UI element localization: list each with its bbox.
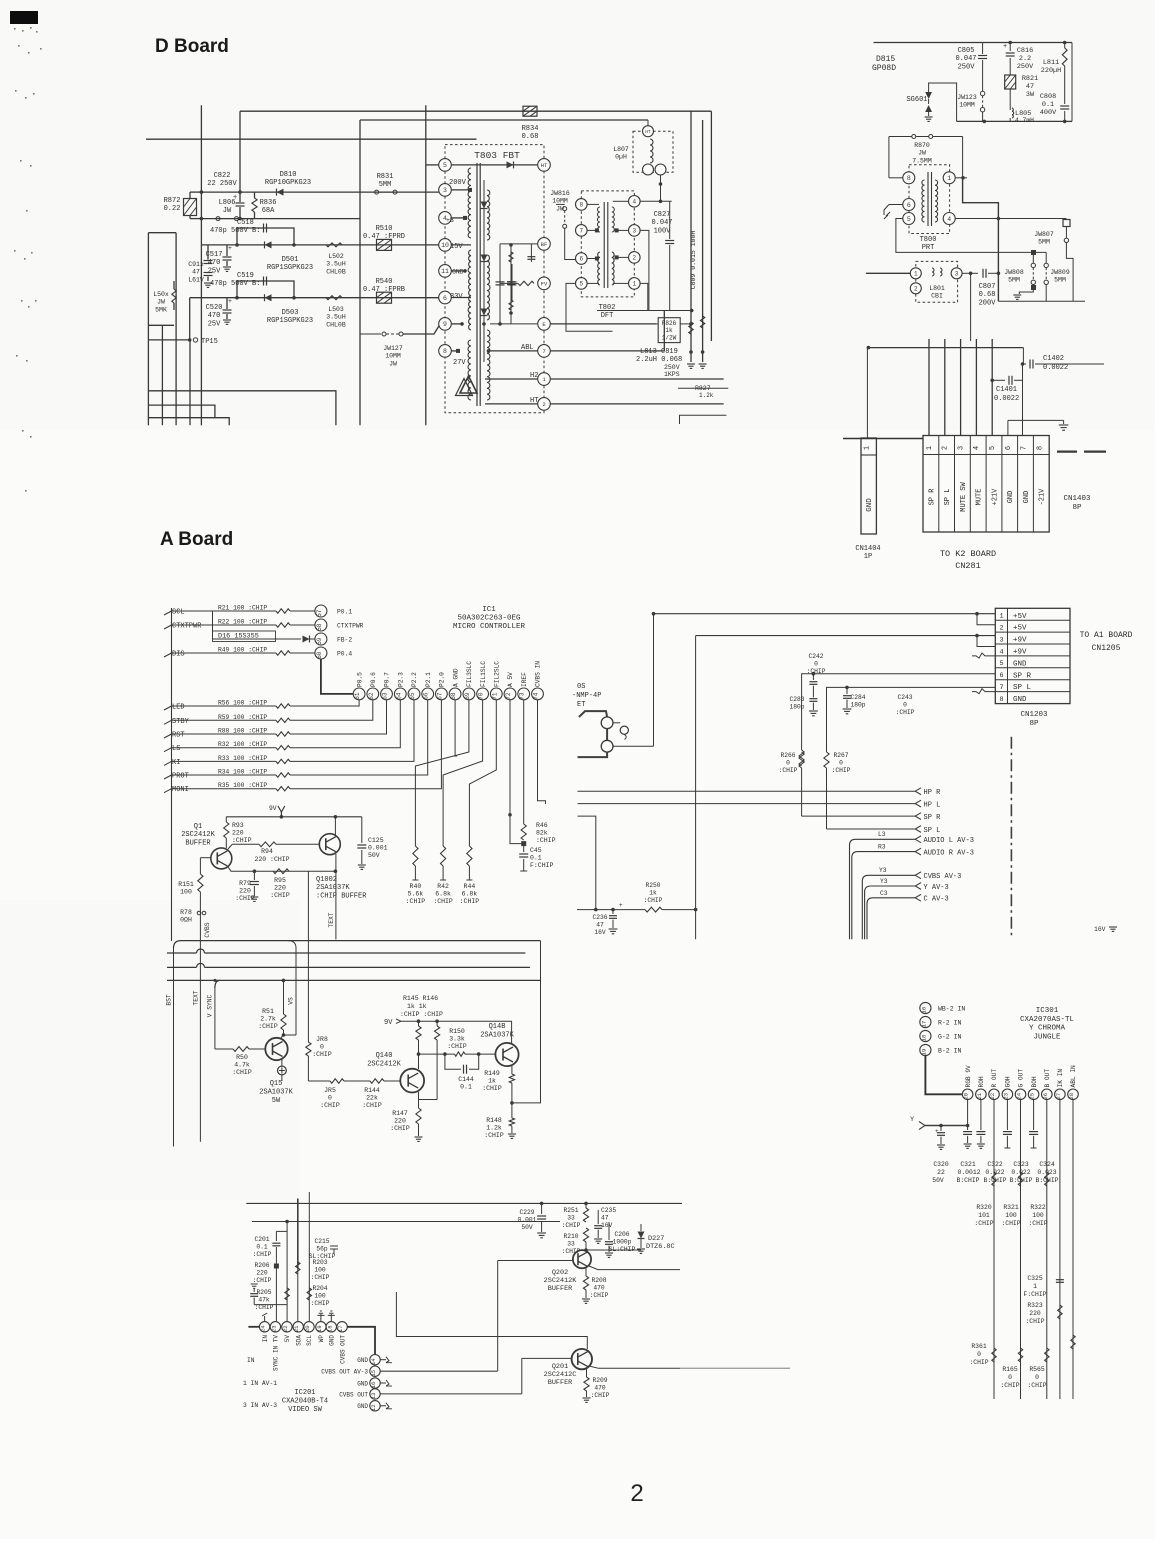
svg-text:22k: 22k [366,1095,378,1102]
svg-text:4: 4 [632,199,636,206]
svg-text:4.7mH: 4.7mH [1015,117,1034,124]
long line pin26 B OUT [1046,1100,1048,1399]
svg-text:50V: 50V [932,1177,944,1184]
svg-text:6: 6 [443,295,447,302]
Q1 emitter row [228,867,335,871]
svg-text:A GND: A GND [452,668,459,687]
svg-text:R826: R826 [662,320,677,327]
svg-text:2SC2412C: 2SC2412C [544,1371,577,1379]
row to Q140 base [308,1080,330,1082]
svg-text:P0.7: P0.7 [384,672,391,687]
IC201 pin 12 [370,1401,380,1411]
svg-text:17: 17 [337,1325,344,1332]
IC1 pin 58 [315,619,327,631]
svg-text:470: 470 [593,1284,605,1291]
CN1403 pin 4 [969,436,971,533]
svg-text:D810: D810 [280,171,297,179]
resistor R251 33 CHIP [585,1203,587,1208]
wire y301 [998,300,1085,302]
svg-text:R540: R540 [376,278,393,286]
svg-text:0.1: 0.1 [1042,101,1054,109]
svg-text:CVBS: CVBS [204,922,211,937]
T802 pin5 wire [566,283,613,331]
IC201 pin 15 [370,1366,380,1376]
svg-text:GND: GND [1007,491,1015,504]
svg-text:Q201: Q201 [552,1363,568,1371]
svg-text:P0.5: P0.5 [356,672,363,687]
svg-text:71: 71 [491,692,498,700]
Q1002 emitter wire [335,854,337,871]
svg-text:0.023: 0.023 [1037,1169,1056,1176]
svg-text:R51: R51 [262,1008,274,1015]
svg-text:0: 0 [786,759,790,766]
capacitor C201 [276,1230,287,1232]
svg-text:16V: 16V [1094,926,1106,933]
svg-text::CHIP: :CHIP [974,1220,993,1227]
svg-text:28: 28 [1068,1093,1075,1100]
scan corner mark [10,11,38,24]
svg-text:FIL3SLC: FIL3SLC [466,661,473,687]
svg-text:5: 5 [989,446,997,450]
svg-text:2SA1037K: 2SA1037K [480,1031,514,1039]
svg-text::CHIP: :CHIP [590,1292,609,1299]
svg-text:VIDEO SW: VIDEO SW [288,1406,322,1414]
svg-text::CHIP: :CHIP [253,1251,272,1258]
svg-text:2.2: 2.2 [1019,55,1031,63]
svg-text::CHIP: :CHIP [779,767,798,774]
svg-text:5: 5 [907,216,911,223]
capacitor on Y line [940,1126,942,1132]
T800 wires [888,137,890,178]
wire main horizontal bus y139 [146,138,477,140]
JR8 vertical [307,871,309,1042]
svg-text:R94: R94 [261,848,273,855]
IC201 pin 21 [293,1322,303,1332]
svg-text:5: 5 [999,660,1003,668]
inductor L801 dashed box [916,261,958,302]
zener D227 DTZ6.8C [640,1224,642,1231]
CN1203 pin 3 [995,631,1070,633]
svg-text:MUTE: MUTE [976,489,984,506]
svg-text:6: 6 [1005,446,1013,450]
svg-text:TO K2 BOARD: TO K2 BOARD [940,549,996,559]
svg-text:70: 70 [478,692,485,700]
C AV-3 wire [867,898,916,939]
svg-text:C807: C807 [979,283,996,291]
svg-text:1k: 1k [665,327,673,334]
capacitor C235 47 16V [597,1210,599,1224]
svg-text::CHIP: :CHIP [390,1125,410,1132]
svg-text:R205: R205 [256,1289,271,1296]
svg-text:5MM: 5MM [1038,239,1050,246]
svg-text:10: 10 [441,242,449,249]
svg-text:8: 8 [907,175,911,182]
svg-text:AUDIO R AV-3: AUDIO R AV-3 [924,849,974,857]
jack pin circles [601,717,613,729]
wire y418 [149,418,229,426]
svg-text:220 :CHIP: 220 :CHIP [254,856,289,863]
svg-text:SCL: SCL [172,609,185,617]
capacitor C519 470p 500V B [237,281,294,298]
resistor R206 220 CHIP [274,1264,279,1269]
svg-text:5MM: 5MM [1008,277,1020,284]
svg-text:GND: GND [357,1380,368,1387]
svg-text:CVBS IN: CVBS IN [535,661,542,687]
svg-text:P2.2: P2.2 [411,672,418,687]
CN1203 pin 7 [995,679,1070,681]
svg-text:8P: 8P [1072,504,1082,512]
Q202 collector wire [589,1266,598,1270]
CN1203 pin 2 [995,619,1070,621]
CVBS AV-3 wire [862,875,916,939]
svg-text:0.47 :FPRB: 0.47 :FPRB [363,286,405,294]
svg-text:0: 0 [977,1351,981,1358]
svg-text:CVBS AV-3: CVBS AV-3 [924,873,962,881]
IC301 pin 28 [1068,1089,1079,1100]
inductor L807 dashed box [633,131,673,172]
svg-text:B:CHIP: B:CHIP [1035,1177,1058,1184]
svg-text:8: 8 [1036,446,1044,450]
svg-text:3: 3 [999,636,1003,644]
svg-text:B:CHIP: B:CHIP [1009,1177,1032,1184]
svg-text:4: 4 [999,648,1003,656]
VS vertical [288,941,296,1035]
IC301 pin 16 [920,1002,931,1013]
svg-text:R208: R208 [591,1277,606,1284]
svg-text:6: 6 [579,256,583,263]
resistor R821 47 3W [1005,75,1016,89]
svg-text:B:CHIP: B:CHIP [956,1177,979,1184]
svg-text:R34 100 :CHIP: R34 100 :CHIP [218,769,267,776]
svg-text:Y CHROMA: Y CHROMA [1029,1025,1066,1033]
svg-text:2: 2 [942,446,950,450]
svg-text:+: + [1003,43,1007,51]
T802 pin 6 [576,253,588,265]
svg-text:C215: C215 [314,1238,329,1245]
svg-text:C323: C323 [1013,1161,1029,1168]
svg-text:C125: C125 [368,837,384,844]
svg-text:R510: R510 [376,225,393,233]
IC1 pin 62 [367,688,379,700]
long line pin28 ABL IN [1072,1100,1074,1399]
svg-text:2SC2412K: 2SC2412K [544,1277,578,1285]
svg-text:4: 4 [973,446,981,450]
svg-text:R22 100 :CHIP: R22 100 :CHIP [218,619,267,626]
T802 pin 3 [629,225,641,237]
jumper JW807 5MM [1063,220,1070,227]
Q148 collector from 9V rail [511,1021,513,1043]
svg-text:220µH: 220µH [1041,67,1061,75]
svg-text:1k: 1k [649,889,657,896]
Q1 base wire [200,857,210,859]
transistor Q148 2SA1037K [495,1043,518,1066]
svg-text:R46: R46 [536,822,548,829]
CN1203 pin 6 [995,667,1070,669]
svg-text:1 IN AV-1: 1 IN AV-1 [243,1380,277,1387]
svg-text:1: 1 [914,271,918,278]
connector CN1203 8P [995,608,1070,703]
svg-text:+9V: +9V [1013,637,1027,645]
svg-text:WB-2 IN: WB-2 IN [938,1006,965,1013]
svg-text:+5V: +5V [1013,613,1027,621]
bus y1221 [252,1221,560,1223]
resistor R151 100 [199,858,201,874]
SP R resistor R266 [799,752,804,768]
svg-text:C518: C518 [237,219,254,227]
T803 pin E [538,318,551,331]
vertical x309 [308,1192,310,1321]
svg-text:C822: C822 [214,172,231,180]
L801 input wire [866,272,910,274]
wire y390 with corner [149,391,336,425]
svg-text:10MM: 10MM [552,198,568,205]
capacitor C518 470p 500V B [237,228,294,245]
svg-text:CHL0B: CHL0B [326,268,346,275]
svg-text:7.5MM: 7.5MM [912,157,932,164]
jumper L806 JW [216,217,220,221]
svg-text:R147: R147 [392,1110,408,1117]
svg-text:G-2 IN: G-2 IN [938,1034,962,1041]
svg-text:0.047: 0.047 [955,55,976,63]
svg-text::CHIP: :CHIP [896,709,915,716]
svg-text:CHL0B: CHL0B [326,321,346,328]
svg-text:R21 100 :CHIP: R21 100 :CHIP [218,605,267,612]
svg-text:1k: 1k [488,1078,496,1085]
svg-text:8: 8 [443,348,447,355]
Q148 base row / capacitor C144 [419,1053,455,1055]
svg-text:R59 100 :CHIP: R59 100 :CHIP [218,714,267,721]
T802 pin 4 [629,196,641,208]
svg-text:R44: R44 [464,883,476,890]
svg-text:C AV-3: C AV-3 [924,896,949,904]
svg-text:BOH: BOH [1031,1076,1038,1087]
connector CN1404 1P [861,438,876,534]
svg-text:SP R: SP R [1013,672,1032,680]
svg-text:Q140: Q140 [376,1052,393,1060]
svg-text:74: 74 [533,692,540,700]
wire top y42 [874,42,1073,44]
lead line y438 [843,438,923,440]
svg-text:GP08D: GP08D [872,64,896,73]
svg-text:27: 27 [1055,1093,1062,1100]
svg-text:C235: C235 [601,1207,616,1214]
svg-text:R321: R321 [1003,1204,1019,1211]
vertical x287 [286,1222,288,1322]
svg-text:P0.6: P0.6 [370,672,377,687]
svg-text:9V: 9V [269,805,277,812]
svg-text:CN1205: CN1205 [1092,644,1121,653]
svg-text:MUTE SW: MUTE SW [960,481,968,511]
svg-text:0.68: 0.68 [979,291,996,299]
svg-text::CHIP: :CHIP [1001,1220,1020,1227]
svg-text:5MM: 5MM [1054,277,1066,284]
svg-text:57: 57 [316,609,323,617]
svg-text:LS: LS [172,745,180,753]
Q1002 collector wire [334,817,336,835]
svg-text:FIL2SLC: FIL2SLC [494,661,501,687]
svg-text:1: 1 [999,613,1003,621]
svg-text:DTZ6.8C: DTZ6.8C [646,1243,675,1251]
svg-text:C320: C320 [933,1161,949,1168]
svg-text:C144: C144 [458,1076,474,1083]
svg-text::CHIP: :CHIP [232,837,252,844]
svg-text:Q14B: Q14B [489,1023,506,1031]
arrow HP L [915,800,921,807]
svg-text:GND: GND [357,1357,368,1364]
capacitor C125 0.001 50V [361,817,363,843]
svg-text:CVBS OUT: CVBS OUT [339,1391,368,1398]
svg-text:R33 100 :CHIP: R33 100 :CHIP [218,755,267,762]
svg-text:R149: R149 [484,1070,500,1077]
svg-text:33: 33 [567,1240,575,1247]
IC301 pin 21 [976,1089,987,1100]
svg-text::CHIP: :CHIP [562,1222,581,1229]
svg-text:3.3k: 3.3k [449,1036,465,1043]
svg-text:C1402: C1402 [1043,355,1064,363]
L807 wires [647,120,649,126]
svg-text:RST: RST [172,732,185,740]
svg-text:470: 470 [594,1384,606,1391]
svg-text:L807: L807 [613,146,629,153]
Q202 top junction wire [585,1249,587,1251]
svg-text:21: 21 [293,1325,300,1332]
svg-text:0: 0 [320,1044,324,1051]
svg-text:250V: 250V [664,364,680,371]
BF cap [530,244,532,262]
wire x176 [175,233,177,426]
svg-text:5.6k: 5.6k [408,891,424,898]
svg-text:R148: R148 [486,1117,502,1124]
svg-text:GND: GND [452,269,464,276]
svg-text:0: 0 [903,701,907,708]
svg-text:20: 20 [963,1092,970,1099]
Y input arrow [919,1122,925,1130]
svg-text:C229: C229 [519,1209,534,1216]
svg-text:+: + [228,245,232,252]
svg-text:25V: 25V [208,267,221,275]
svg-text:JW: JW [223,207,232,215]
svg-text:CVBS OUT AV-3: CVBS OUT AV-3 [321,1369,368,1376]
svg-text:0.47 :FPRD: 0.47 :FPRD [363,233,405,241]
wire SCL to D16 [212,611,214,639]
svg-text:72: 72 [505,692,512,700]
svg-text:2SC2412K: 2SC2412K [367,1060,401,1068]
resistor R94 220 CHIP [228,845,232,850]
svg-text:1: 1 [947,175,951,182]
V SYNC vertical [214,986,216,1049]
T803 pin 8 [439,345,452,358]
svg-text:C201: C201 [254,1236,269,1243]
svg-text:R144: R144 [364,1087,380,1094]
pin6 ground wire [1008,419,1064,421]
svg-text:200V: 200V [979,299,997,307]
SP L wire from pin7 [827,687,996,752]
capacitor C807 0.68 200V [962,272,978,274]
svg-text:JW127: JW127 [383,345,403,352]
stub y325 [148,324,174,326]
svg-text::CHIP: :CHIP [1025,1318,1044,1325]
svg-text:IK IN: IK IN [1057,1069,1064,1088]
svg-text:R56 100 :CHIP: R56 100 :CHIP [218,700,267,707]
arrow SP L [915,826,921,833]
svg-text:SP L: SP L [1013,684,1032,692]
svg-text:FV: FV [541,280,548,287]
svg-text:25: 25 [1029,1093,1036,1100]
svg-text:F:CHIP: F:CHIP [1023,1291,1046,1298]
svg-text:R834: R834 [522,125,539,133]
IC201 pin 19 [316,1322,326,1332]
L801 pin 1 [910,268,921,279]
AUDIO L AV-3 wire [850,839,917,939]
svg-text:82k: 82k [536,830,548,837]
svg-text:0.0022: 0.0022 [1043,364,1068,372]
svg-text:250V: 250V [958,63,976,71]
transistor Q1002 2SA1037K BUFFER [319,834,340,855]
capacitor C206 1000p SL CHIP [608,1222,610,1240]
svg-text:1: 1 [1033,1283,1037,1290]
IC201 pin 14 [370,1355,380,1365]
svg-text::CHIP: :CHIP [406,898,426,905]
bus line 1 y940.6 [174,941,541,948]
svg-text:FB-2: FB-2 [337,637,352,644]
IC1 pin 68 [449,688,461,700]
inductor L503 3.5uH CHL0B [326,296,342,300]
E row [490,323,538,325]
svg-text:R206: R206 [254,1262,269,1269]
svg-text:63: 63 [382,692,389,700]
jack wires [579,711,607,717]
svg-text:470: 470 [208,312,221,320]
svg-text:10MM: 10MM [959,102,975,109]
svg-text:47: 47 [601,1214,609,1221]
svg-text:2SC2412K: 2SC2412K [181,831,215,839]
IC301 pin 22 [989,1089,1000,1100]
L807 winding [650,139,653,163]
T803 pin FV [538,277,551,290]
pin15 wire to Q202 [380,1370,498,1372]
transistor Q140 2SC2412K [400,1069,424,1093]
T803 pin 5 [439,159,452,172]
Q202 base wire [498,1260,573,1262]
T803 pin 1 [538,373,551,386]
svg-text::CHIP: :CHIP [644,897,663,904]
wire vertical x360 [359,120,361,425]
IC1 pin 61 [353,688,365,700]
svg-text:R251: R251 [563,1207,578,1214]
AUDIO R AV-3 wire [852,852,916,940]
vertical x298 heavy [297,1199,299,1269]
svg-text:101: 101 [978,1212,990,1219]
E row wire right [550,323,656,325]
Q202 base vertical [497,1261,499,1372]
svg-text:220: 220 [232,830,244,837]
svg-text:P2.0: P2.0 [439,672,446,687]
svg-text:2: 2 [630,1480,643,1507]
svg-text:2: 2 [999,625,1003,633]
svg-text:F:CHIP: F:CHIP [530,862,554,869]
svg-text:R204: R204 [312,1285,327,1292]
svg-text:+9V: +9V [1013,649,1027,657]
svg-text:ROH: ROH [978,1076,985,1087]
svg-text:R78: R78 [180,909,192,916]
resistor R95 220 CHIP [273,869,289,874]
svg-text:73: 73 [519,692,526,700]
svg-text:V SYNC: V SYNC [207,994,214,1017]
svg-text:1.2k: 1.2k [699,392,714,399]
svg-text:100V: 100V [654,227,672,235]
svg-text:5: 5 [579,281,583,288]
Q148 emitter / resistor R149 [511,1066,513,1074]
